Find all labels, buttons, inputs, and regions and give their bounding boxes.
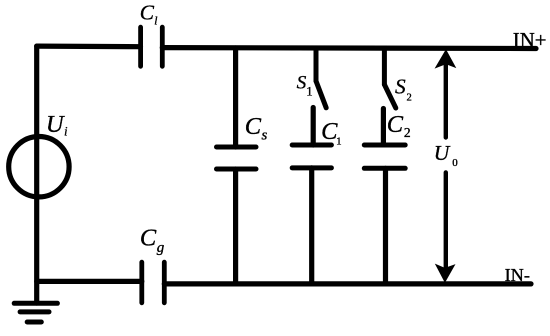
arrow U0 top head (436, 50, 456, 67)
svg-text:C: C (140, 0, 155, 24)
wire top rail right segment (162, 45, 536, 51)
capacitor C_t right plate (160, 27, 165, 66)
source U_i circle (9, 137, 69, 197)
capacitor C_s bottom plate (217, 167, 257, 172)
ground bar 1 (14, 301, 57, 306)
wire S_1 upper stub (314, 48, 319, 81)
svg-text:g: g (157, 240, 165, 256)
capacitor C_t left plate (138, 27, 143, 66)
svg-text:U: U (434, 141, 451, 165)
svg-text:S: S (395, 75, 406, 99)
wire bottom rail right segment (164, 281, 531, 286)
switch S1 blade (316, 81, 326, 108)
capacitor C_g left plate (139, 262, 144, 303)
wire S_2 lower stub (381, 109, 386, 145)
ground bar 2 (20, 309, 49, 314)
switch S2 blade (384, 85, 395, 109)
wire bottom rail left segment (37, 279, 142, 284)
svg-text:C: C (387, 111, 404, 138)
capacitor C2 bottom plate (364, 166, 405, 171)
arrow U0 shaft upper (444, 63, 448, 138)
svg-text:1: 1 (306, 84, 312, 98)
wire S_1 lower stub (311, 108, 316, 146)
svg-text:U: U (46, 111, 66, 138)
svg-text:i: i (64, 125, 67, 139)
svg-text:s: s (262, 128, 268, 144)
svg-text:C: C (140, 224, 157, 251)
wire C2 lower (383, 168, 388, 284)
wire top rail left segment (37, 43, 141, 49)
wire left vertical (34, 46, 39, 303)
arrow U0 shaft lower (444, 172, 448, 268)
svg-text:1: 1 (336, 136, 342, 148)
svg-text:IN-: IN- (505, 265, 530, 285)
svg-text:C: C (245, 113, 262, 140)
wire C_s upper (233, 48, 238, 147)
wire C_s lower (233, 169, 238, 284)
arrow U0 bottom head (436, 265, 455, 282)
svg-text:S: S (297, 73, 307, 94)
capacitor C1 top plate (292, 143, 331, 148)
capacitor C_g right plate (162, 262, 167, 303)
capacitor C2 top plate (364, 143, 405, 148)
svg-text:2: 2 (404, 125, 411, 140)
capacitor C1 bottom plate (292, 165, 331, 170)
wire S_2 upper stub (382, 48, 387, 84)
capacitor C_s top plate (217, 145, 257, 150)
svg-text:0: 0 (452, 157, 458, 169)
ground bar 3 (27, 320, 41, 325)
svg-text:IN+: IN+ (513, 28, 547, 52)
wire C1 lower (309, 168, 314, 284)
svg-text:l: l (154, 16, 157, 28)
svg-text:2: 2 (407, 92, 412, 103)
